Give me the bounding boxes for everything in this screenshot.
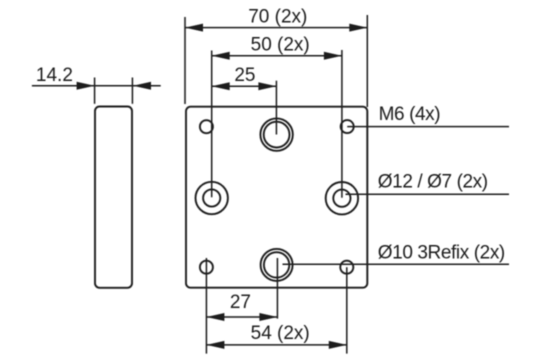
svg-text:M6 (4x): M6 (4x) [379,104,441,125]
svg-text:27: 27 [230,292,251,313]
svg-text:25: 25 [234,65,255,86]
svg-text:14.2: 14.2 [36,65,73,86]
svg-text:70 (2x): 70 (2x) [248,7,307,28]
svg-text:Ø10 3Refix (2x): Ø10 3Refix (2x) [378,242,505,263]
svg-text:54 (2x): 54 (2x) [251,323,310,344]
svg-text:Ø12 / Ø7 (2x): Ø12 / Ø7 (2x) [378,172,488,193]
svg-text:50 (2x): 50 (2x) [251,34,310,55]
